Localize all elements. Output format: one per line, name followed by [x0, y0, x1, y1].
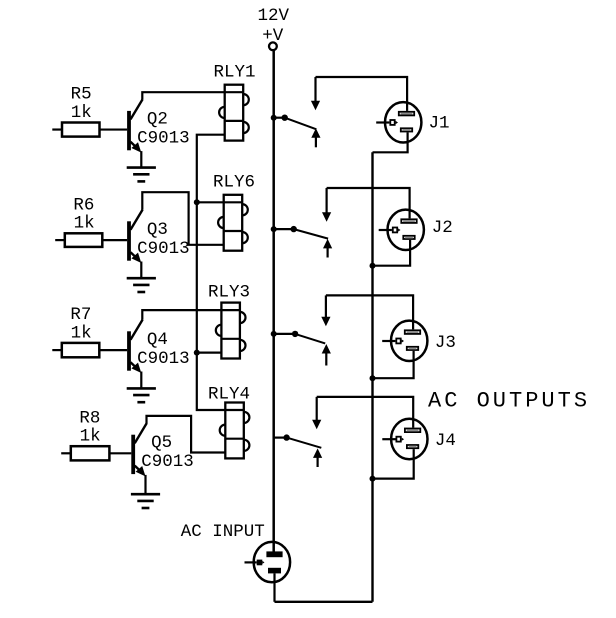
AC outlet J3 [391, 321, 427, 361]
wire rail to relay contact 1 [274, 117, 285, 119]
svg-text:1k: 1k [71, 103, 92, 123]
label J1 [429, 113, 450, 133]
wire outlet J4 left pin stub [382, 438, 395, 440]
wire outlet J1 left pin stub [376, 121, 389, 123]
junction neutral bus row 2 [370, 263, 376, 269]
svg-text:C9013: C9013 [137, 349, 190, 369]
wire relay coil common bus [197, 135, 226, 410]
transistor Q5 [131, 423, 147, 476]
relay contact SW1 (pole) [282, 115, 317, 130]
svg-text:J3: J3 [435, 333, 456, 353]
ground [127, 168, 156, 182]
junction neutral bus row 3 [370, 375, 376, 381]
value label 1k [74, 214, 95, 234]
wire rail to relay contact 4 [274, 437, 287, 439]
svg-text:R6: R6 [73, 195, 94, 215]
value label C9013 [137, 239, 190, 259]
wire Q4 collector to RLY3 coil top pin [142, 310, 221, 320]
wire outlet J3 bottom to neutral bus [373, 351, 414, 378]
wire Q2 collector to RLY1 coil top pin [142, 92, 224, 99]
relay contact SW3 (pole) [292, 331, 325, 344]
wire Q5 collector to RLY4 coil bottom pin [147, 416, 226, 453]
value label 1k [80, 427, 101, 447]
wire emitter to ground [144, 475, 146, 494]
label Q2 [147, 109, 168, 129]
label AC OUTPUTS [428, 389, 590, 414]
contact NO throw arrow row 2 [322, 188, 331, 222]
wire contact to outlet J2 [327, 188, 410, 218]
contact NC throw arrow row 1 [311, 128, 320, 147]
wire contact to outlet J3 [326, 295, 413, 329]
label R6 [73, 195, 94, 215]
ground [127, 278, 156, 292]
label RLY1 [214, 62, 256, 82]
junction on rail row 3 [271, 331, 277, 337]
svg-text:Q5: Q5 [151, 433, 172, 453]
contact NC throw arrow row 2 [323, 239, 332, 258]
contact NO throw arrow row 1 [311, 77, 320, 110]
terminal +V [269, 42, 277, 50]
contact NC throw arrow row 3 [322, 344, 331, 366]
contact NO throw arrow row 4 [312, 397, 321, 429]
junction on rail row 1 [271, 115, 277, 121]
wire outlet J3 left pin stub [382, 340, 395, 342]
wire outlet J4 bottom to neutral bus [373, 449, 414, 479]
transistor Q4 [127, 320, 143, 373]
value label 1k [71, 103, 92, 123]
svg-text:AC INPUT: AC INPUT [181, 522, 265, 542]
AC outlet J2 [388, 210, 424, 250]
relay coil RLY6 [218, 195, 248, 251]
wire outlet J1 bottom to neutral bus [373, 132, 408, 152]
relay coil RLY4 [220, 403, 250, 459]
relay coil RLY3 [216, 303, 246, 359]
value label C9013 [137, 128, 190, 148]
wire AC input left pin stub [245, 561, 257, 563]
contact NC throw arrow row 4 [313, 448, 322, 467]
label RLY4 [208, 384, 250, 404]
wire contact to outlet J4 [317, 397, 414, 428]
wire AC input bottom lead [273, 573, 275, 601]
wire neutral bus [371, 152, 373, 602]
AC outlet J4 [391, 419, 427, 459]
AC outlet J1 [385, 102, 421, 142]
svg-text:R5: R5 [71, 85, 92, 105]
wire emitter to ground [140, 151, 142, 168]
svg-text:Q3: Q3 [147, 220, 168, 240]
ground [127, 388, 156, 402]
wire contact to outlet J1 [316, 77, 408, 111]
transistor Q2 [127, 99, 143, 152]
value label C9013 [141, 452, 194, 472]
wire rail to relay contact 2 [274, 228, 294, 230]
resistor R5 [52, 123, 127, 137]
label RLY3 [208, 283, 250, 303]
svg-text:R7: R7 [70, 305, 91, 325]
svg-text:+V: +V [262, 26, 284, 46]
label +V [262, 26, 284, 46]
label RLY6 [213, 172, 255, 192]
svg-text:C9013: C9013 [137, 239, 190, 259]
AC input connector P1 [254, 542, 290, 582]
junction RLY3 tap [194, 350, 200, 356]
wire rail to relay contact 3 [274, 333, 295, 335]
value label 1k [71, 323, 92, 343]
label J4 [435, 431, 456, 451]
svg-text:AC OUTPUTS: AC OUTPUTS [428, 389, 590, 414]
svg-text:1k: 1k [74, 214, 95, 234]
resistor R8 [61, 446, 131, 460]
svg-text:C9013: C9013 [141, 452, 194, 472]
label J2 [432, 218, 453, 238]
svg-text:12V: 12V [258, 6, 290, 26]
svg-text:J4: J4 [435, 431, 456, 451]
svg-text:RLY4: RLY4 [208, 384, 250, 404]
svg-text:J2: J2 [432, 218, 453, 238]
wire outlet J2 bottom to neutral bus [373, 240, 411, 266]
label J3 [435, 333, 456, 353]
svg-text:Q4: Q4 [147, 330, 168, 350]
junction RLY6 tap [194, 199, 200, 205]
ground [131, 494, 160, 508]
label AC INPUT [181, 522, 265, 542]
label Q4 [147, 330, 168, 350]
junction on rail row 2 [271, 226, 277, 232]
value label C9013 [137, 349, 190, 369]
svg-text:1k: 1k [80, 427, 101, 447]
wire outlet J2 left pin stub [379, 229, 392, 231]
resistor R6 [55, 233, 127, 247]
label Q5 [151, 433, 172, 453]
svg-text:RLY1: RLY1 [214, 62, 256, 82]
junction neutral bus row 4 [370, 476, 376, 482]
transistor Q3 [127, 210, 143, 263]
svg-text:RLY3: RLY3 [208, 283, 250, 303]
label R7 [70, 305, 91, 325]
wire RLY6 coil top pin tap [197, 201, 224, 203]
svg-text:C9013: C9013 [137, 128, 190, 148]
label R5 [71, 85, 92, 105]
relay contact SW4 (pole) [283, 434, 321, 447]
svg-text:J1: J1 [429, 113, 450, 133]
label 12V [258, 6, 290, 26]
resistor R7 [52, 343, 127, 357]
svg-text:Q2: Q2 [147, 109, 168, 129]
wire emitter to ground [140, 372, 142, 389]
wire Q3 collector to RLY6 coil bottom pin [142, 192, 223, 245]
wire bottom return to AC input [275, 601, 373, 603]
svg-text:R8: R8 [79, 408, 100, 428]
label Q3 [147, 220, 168, 240]
wire emitter to ground [140, 262, 142, 279]
svg-text:1k: 1k [71, 323, 92, 343]
contact NO throw arrow row 3 [321, 295, 330, 326]
wire RLY3 coil bottom pin tap [197, 352, 222, 354]
svg-text:RLY6: RLY6 [213, 172, 255, 192]
relay coil RLY1 [219, 85, 249, 141]
relay contact SW2 (pole) [291, 226, 329, 239]
label R8 [79, 408, 100, 428]
power rail +V / 12V supply line [272, 50, 275, 551]
